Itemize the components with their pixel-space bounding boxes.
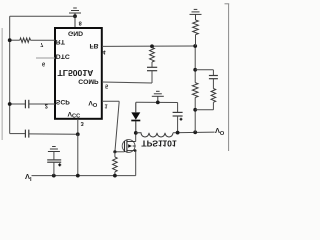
node [193,108,197,112]
diode: catch diode (cathode to SW node) [131,102,140,133]
wire [177,103,179,113]
svg-text:6: 6 [42,61,45,67]
ground (divider) [190,9,202,20]
wire: power GND bus (diode anode) [136,101,178,103]
node [193,68,197,72]
wire: RT pin wire [10,39,20,41]
resistor R2: divider lower to GND [193,20,199,35]
wire: SCP wire left [10,103,26,105]
wire [31,39,56,41]
wire: gate lead [115,151,125,153]
wire [53,162,55,175]
wire: COMP pin 5 wire [102,82,152,83]
node [156,101,160,105]
wire: GND top bus from left rail to pin 8 [10,15,75,17]
wire [212,79,214,89]
node: GND pin junction [73,14,77,18]
wire [29,103,55,105]
wire: drain to SW node [135,133,137,142]
ground (power stage) [152,91,164,102]
label: + polarity [180,118,183,121]
node [76,174,80,178]
node [52,174,56,178]
resistor: feed-forward R [211,89,216,103]
node: RT/GND rail junction [8,38,12,42]
wire: left GND rail vertical [9,16,11,133]
wire: page edge artifact left [1,28,3,140]
inductor L (SW to VO) [136,133,173,137]
node [193,44,197,48]
node: SW node [134,131,138,135]
resistor: gate pull-up to VI [113,157,118,172]
wire [151,62,153,67]
wire [194,98,196,133]
wire: VO rail [173,131,215,134]
wire [114,172,116,176]
wire: pin 8 stub [74,16,76,28]
svg-text:8: 8 [79,19,82,25]
capacitor: input bulk electrolytic [47,159,61,161]
wire: VCC pin 3 stub [77,119,79,135]
transistor Q1: TPS1101 P-channel MOSFET [122,140,136,153]
wire: DTC stub [36,57,55,59]
wire: source to VI rail [135,151,137,176]
ground (at GND pin 8) [69,8,81,16]
wire [53,152,55,160]
svg-text:FB: FB [89,42,98,49]
wire [195,35,197,46]
node: FB/comp junction [150,44,154,48]
svg-text:TL5001A: TL5001A [57,68,93,78]
svg-text:DTC: DTC [56,53,70,60]
wire [29,133,78,135]
wire [114,152,116,157]
capacitor: output cap [173,111,183,113]
ground (input cap) [48,151,60,153]
wire: FB pin 4 net to divider [102,45,195,47]
wire: divider chain [194,46,196,83]
node: SCP/GND rail junction [8,102,12,106]
wire [151,71,153,83]
capacitor: VCC bypass cap [24,130,26,138]
svg-text:TPS1101: TPS1101 [141,138,177,148]
wire: VCC to VI rail [77,134,79,175]
svg-text:RT: RT [56,38,66,45]
svg-text:1: 1 [105,103,108,109]
wire: page frame right edge [228,4,230,151]
resistor R1: divider upper [192,83,198,98]
svg-text:2: 2 [45,103,48,109]
node [176,131,180,135]
wire: VI input rail (bottom) [32,175,136,177]
wire [177,116,179,132]
node [193,130,197,134]
node: gate junction [113,150,116,153]
wire: OUT vertical to gate [115,101,119,152]
wire: VCC bypass line [10,133,26,135]
resistor: compensation R [150,48,155,63]
svg-text:SCP: SCP [56,98,70,105]
svg-text:7: 7 [40,41,43,47]
node: VCC junction [76,132,80,136]
node [113,174,117,178]
op-amp U1: TL5001A controller IC body [55,28,102,119]
svg-text:3: 3 [81,120,84,126]
capacitor: SCP timing cap [24,100,26,109]
svg-text:5: 5 [105,83,108,89]
label: + polarity [58,163,61,166]
capacitor: feed-forward C [209,75,218,77]
wire: OUT pin 1 wire [102,100,119,102]
wire: feed-forward branch [195,69,213,71]
capacitor: compensation C [147,66,157,68]
resistor RT (timing) [20,38,31,42]
wire [212,102,214,110]
svg-text:GND: GND [68,29,83,36]
